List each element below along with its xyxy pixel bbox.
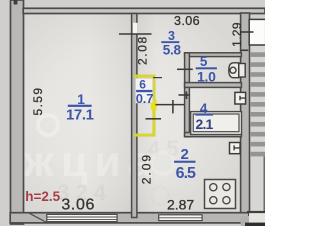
svg-text:жциа: жциа (23, 138, 159, 186)
svg-text:6: 6 (139, 78, 146, 92)
svg-text:3.06: 3.06 (174, 14, 200, 28)
svg-text:3: 3 (168, 29, 175, 43)
svg-text:6.5: 6.5 (176, 165, 196, 182)
svg-text:2.09: 2.09 (139, 153, 153, 184)
svg-text:2.08: 2.08 (136, 35, 150, 65)
svg-text:17.1: 17.1 (66, 107, 94, 124)
svg-text:1: 1 (77, 91, 85, 107)
svg-text:2.87: 2.87 (167, 196, 194, 212)
svg-text:5.8: 5.8 (163, 43, 182, 58)
svg-text:5.59: 5.59 (31, 87, 45, 116)
svg-text:2: 2 (181, 146, 189, 163)
svg-text:2.1: 2.1 (195, 116, 213, 132)
svg-text:3.06: 3.06 (61, 197, 95, 214)
svg-text:h=2.5: h=2.5 (25, 189, 60, 204)
svg-text:1.29: 1.29 (230, 22, 244, 47)
svg-text:0.7: 0.7 (136, 91, 153, 106)
svg-text:5: 5 (200, 54, 208, 69)
svg-text:1.0: 1.0 (197, 68, 216, 84)
